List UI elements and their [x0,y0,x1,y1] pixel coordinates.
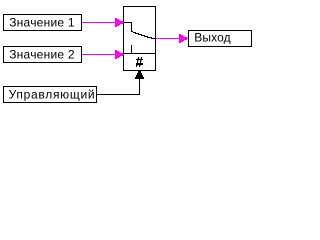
switch input 2 tick [131,45,132,53]
switch diagonal contact (staircase) [131,31,156,39]
arrowhead at switch input 2 [115,50,124,59]
svg-text:Значение 2: Значение 2 [9,48,75,62]
svg-text:Выход: Выход [194,31,230,45]
wire: control vertical segment [139,75,141,95]
wire: switch output to Выход [156,38,188,40]
switch input 1 stub [124,22,132,31]
switch input 2 rail [124,53,155,54]
switch block U1 [124,7,157,71]
source block Значение 1 [4,15,82,31]
wire: Управляющий output to switch control (horizontal segment) [97,94,140,96]
source block Управляющий [4,87,97,103]
wire: Значение 1 output to switch input 1 [82,22,123,24]
svg-text:Управляющий: Управляющий [9,87,96,101]
threshold symbol # [136,57,143,67]
source block Значение 2 [4,47,82,63]
wire: Значение 2 output to switch input 2 [82,54,123,56]
arrowhead at switch input 1 [115,18,124,27]
arrowhead at switch control input [135,71,144,79]
svg-text:Значение 1: Значение 1 [9,16,75,30]
output block Выход [189,31,252,47]
arrowhead at Выход input [179,34,188,43]
